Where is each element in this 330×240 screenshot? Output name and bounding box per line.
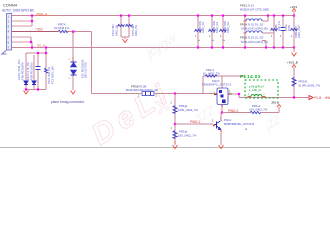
svg-text:AUTO_SOM-GPIO-B0: AUTO_SOM-GPIO-B0: [2, 9, 34, 13]
pullup resistor PR73: [128, 16, 130, 38]
wire x175 vertical: [174, 94, 176, 146]
wire tie pins6-7: [31, 42, 33, 48]
wire FET drain out y94: [232, 93, 239, 95]
watermark pink big Deli: [86, 76, 179, 152]
svg-text:PWD.1: PWD.1: [190, 120, 200, 124]
resistor col x198: [197, 16, 199, 48]
svg-text:(0.4R_0603_7%: (0.4R_0603_7%: [299, 84, 321, 88]
wire y97.5 through green box: [239, 97, 308, 99]
watermark gray bottom right: [262, 113, 285, 133]
svg-text:PR15 /5.10: PR15 /5.10: [240, 3, 254, 7]
svg-text:10.0KΩ 1%: 10.0KΩ 1%: [54, 26, 70, 30]
node (121,16): [120, 14, 122, 16]
svg-text:J5N.B: J5N.B: [271, 100, 279, 104]
wire y76: [203, 75, 246, 77]
resistor col x212: [211, 16, 213, 48]
TVS diode D7: [71, 62, 77, 75]
wire TDO corner x91 drop: [91, 32, 93, 94]
ground end of rail y47.5: [293, 48, 295, 53]
svg-text:PD8 PESD5V0: PD8 PESD5V0: [29, 62, 33, 80]
wire TDO after resistor: [68, 31, 92, 33]
svg-text:PL.B: PL.B: [315, 96, 322, 100]
capacitor col3: [36, 67, 41, 70]
svg-text:CONN4: CONN4: [3, 3, 18, 8]
wire pin5: [12, 36, 31, 38]
svg-text:10K_0402_7%: 10K_0402_7%: [178, 134, 197, 138]
diode D col1: [24, 81, 28, 85]
node gate junction x175: [174, 92, 176, 94]
bead stub row1: [262, 20, 268, 22]
stub column x245: [244, 16, 246, 48]
watermark gray left: [25, 22, 39, 36]
wire tie pins5-6: [30, 37, 32, 42]
svg-text:1_140)_0s: 1_140)_0s: [249, 88, 262, 92]
wire PWD2 y112.5: [222, 112, 250, 114]
node (46,47.5): [45, 46, 47, 48]
ground TVS: [71, 91, 76, 95]
resistor col x294: [293, 16, 295, 48]
flag up J5N: [278, 107, 280, 113]
net flag PL.B: [309, 96, 313, 100]
svg-text:0402_1%: 0402_1%: [226, 21, 230, 33]
node (294,97.5): [293, 96, 295, 98]
resistor col x223: [222, 16, 224, 48]
ferrite bead PL98: [126, 85, 158, 98]
wire pin7 SC_A rail y47.5: [12, 47, 294, 49]
ground cluster: [24, 91, 29, 95]
wire pin1 label segment: [33, 15, 52, 17]
svg-text:0402_5%: 0402_5%: [134, 24, 138, 36]
watermark gray top middle: [142, 29, 180, 61]
node (46,53): [45, 52, 47, 54]
svg-text:PD6 PESD5V0: PD6 PESD5V0: [20, 62, 24, 80]
svg-text:10K_0402_7%: 10K_0402_7%: [249, 107, 268, 111]
nodes right top rail: [267, 14, 269, 16]
svg-text:SOM-AUTO-GPIO_B0: SOM-AUTO-GPIO_B0: [241, 27, 268, 31]
bead stub row2: [262, 32, 274, 34]
wire gate y93.5 right of bead: [155, 93, 217, 95]
power flag down at 125: [123, 39, 128, 43]
resistor PR101: [292, 78, 296, 87]
wire A y53: [26, 52, 46, 54]
wire TVS stub tick: [72, 57, 74, 61]
wire TDO drop x73: [72, 32, 74, 63]
wire x203 drop to gate: [202, 76, 204, 94]
svg-text:FDN306P-G_SOT23-3: FDN306P-G_SOT23-3: [202, 83, 232, 87]
svg-text:PR14 /5.10 JU_D2: PR14 /5.10 JU_D2: [240, 23, 264, 27]
wire B y89.5: [26, 89, 46, 91]
ground x175: [173, 145, 178, 149]
wire pin3: [12, 25, 32, 27]
wire PWD.1 y124: [175, 123, 213, 125]
svg-text:HW: HW: [325, 96, 330, 100]
svg-text:0402_1%: 0402_1%: [215, 21, 219, 33]
svg-text:100K_0402_7%: 100K_0402_7%: [178, 108, 198, 112]
node (38,89.5): [37, 88, 39, 90]
svg-text:PL14.02: PL14.02: [240, 74, 261, 80]
wire x222 drop to fet top: [221, 76, 223, 88]
diode D col2: [32, 81, 36, 85]
svg-text:2BT,215 SOD: 2BT,215 SOD: [84, 62, 88, 78]
node TDO junction: [72, 31, 74, 33]
svg-text:SC_A: SC_A: [37, 43, 46, 47]
wire col x38 cap: [37, 53, 39, 66]
wire join pullups: [121, 36, 129, 38]
wire emitter: [220, 131, 222, 145]
wire pin6: [12, 41, 32, 43]
node (175,124): [174, 123, 176, 125]
resistor col4 body: [45, 68, 48, 73]
watermark pink X mid: [150, 94, 173, 118]
nodes lower rail: [197, 46, 199, 48]
connector J1 body: [2, 14, 12, 55]
svg-text:1K_0402_7%: 1K_0402_7%: [203, 71, 220, 75]
pullup resistor PR72: [120, 16, 122, 38]
svg-text:place bmag connector: place bmag connector: [51, 100, 85, 104]
sheet bottom border: [0, 147, 330, 149]
svg-text:PQ11: PQ11: [224, 118, 232, 122]
connector pin numbers: [8, 14, 10, 49]
svg-text:PC3 100N_16V: PC3 100N_16V: [50, 66, 54, 84]
svg-text:+3V3_B: +3V3_B: [287, 61, 298, 65]
svg-text:MCB24-187-C/TR_SMD: MCB24-187-C/TR_SMD: [240, 7, 269, 11]
svg-text:0402_1%S: 0402_1%S: [297, 25, 301, 38]
node (26,89.5): [25, 88, 27, 90]
nodes top rail: [197, 14, 199, 16]
wire gate y93.5 left: [92, 93, 142, 95]
node (38,53): [37, 52, 39, 54]
wire col x26: [25, 53, 27, 90]
resistor PR16: [173, 131, 177, 139]
wire TVS lower lead: [72, 74, 74, 90]
svg-text:MMBTBRHSH_SOT23 B: MMBTBRHSH_SOT23 B: [224, 122, 254, 126]
svg-text:st: st: [245, 127, 247, 131]
capacitor col x283: [282, 16, 284, 28]
ground PQ11: [219, 145, 224, 149]
svg-text:10K_1%: 10K_1%: [277, 20, 281, 31]
svg-text:JTAG_A: JTAG_A: [36, 12, 47, 16]
resistor PR74: [54, 23, 70, 33]
wire pin1 main top rail y16: [12, 15, 294, 17]
node pins tie: [31, 14, 33, 16]
svg-text:PWD-2: PWD-2: [228, 109, 238, 113]
resistor col x274: [273, 16, 275, 48]
node (222,112.5): [221, 111, 223, 113]
nodes right lower rail: [273, 46, 275, 48]
svg-text:PR16 /5.10 JU_D2: PR16 /5.10 JU_D2: [240, 36, 264, 40]
resistor PR59: [173, 106, 177, 114]
wire pin4 TDO: [12, 31, 58, 33]
node (129,16): [128, 14, 130, 16]
wire collector: [220, 113, 222, 121]
wire tie pins1-3: [31, 16, 33, 27]
node (239,94): [238, 93, 240, 95]
wire FET source drop: [221, 105, 223, 113]
svg-text:TDO: TDO: [36, 28, 43, 32]
wire col x46: [45, 48, 47, 69]
svg-text:0402_5%: 0402_5%: [114, 24, 118, 36]
wire col x34: [33, 55, 35, 90]
wire pin2: [12, 20, 32, 22]
svg-text:0402_1%: 0402_1%: [201, 21, 205, 33]
